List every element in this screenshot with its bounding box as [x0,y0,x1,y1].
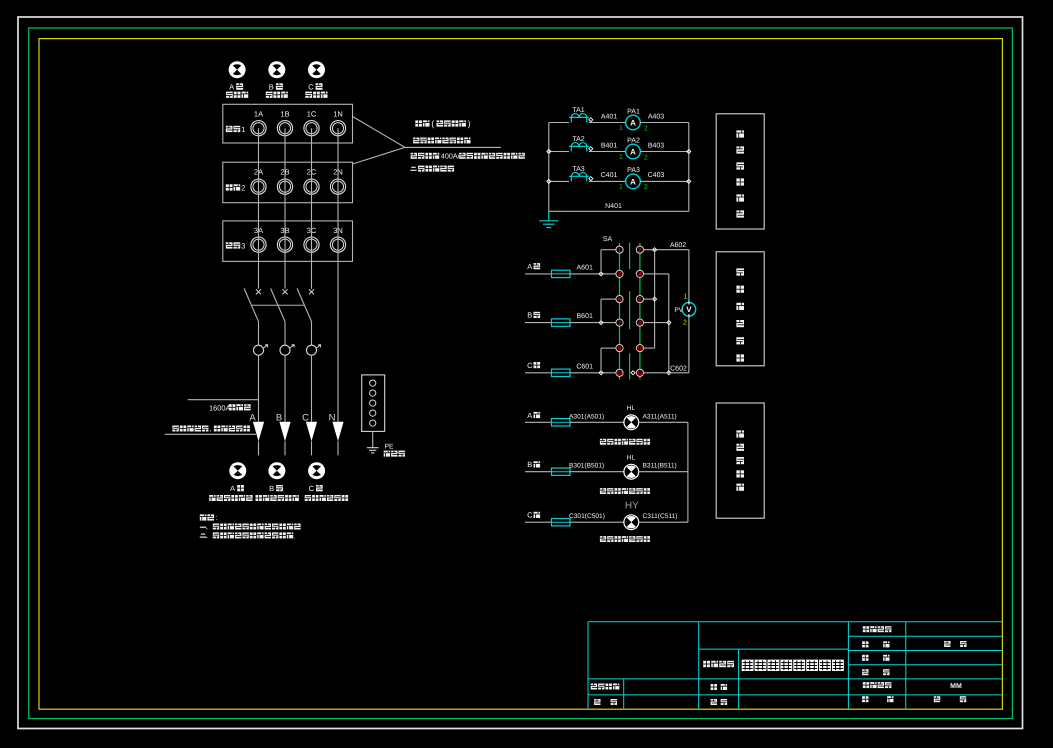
leader horizontal line [405,146,501,148]
wire A below breaker [258,322,260,346]
svg-text:5: 5 [618,296,622,303]
switch SA contact 1 [616,246,623,253]
wire row A (TA to ammeter) [589,122,626,124]
breaker pole A: blade [244,288,258,321]
switch SA pole line col2 (green) [639,243,641,380]
label 指示灯 [266,92,273,98]
box 指示灯回路 [716,403,764,518]
label B相电源指示灯 [600,488,606,494]
wire C below CT [311,355,313,422]
svg-text:1: 1 [619,184,623,191]
svg-text:(: ( [431,118,434,128]
ammeter PA1 [626,115,641,130]
wire B below breaker [284,322,286,346]
svg-text:C: C [308,82,314,91]
svg-text:TA2: TA2 [572,136,584,143]
wire fuse to lamp B [570,471,624,473]
wire B-phase feed (lamp circuit) [525,471,552,473]
junction diamond after TA2 [589,147,593,151]
switch SA shaft segment 3 (green) [629,353,631,379]
wire phase A vertical (sockets to breaker) [258,128,260,289]
svg-text:A401: A401 [601,113,617,120]
label 插座2 [226,184,233,190]
wire left bus (current circuit) [548,123,550,212]
label 指示灯回路 (vertical) [736,430,744,437]
title block value 电气 [944,641,950,647]
PE terminal 3 [370,400,376,406]
svg-text:12: 12 [636,370,643,377]
title block label 标注单位 [863,682,869,688]
switch SA contact 7 [616,319,623,326]
wire contact4 stub [644,273,669,275]
wire fuse to lamp C [570,521,624,523]
svg-text:B: B [269,484,274,493]
junction diamond C602 bottom [667,371,671,375]
fuse FU B (voltage circuit) [552,319,571,326]
current transformer ring phase A [254,345,264,355]
breaker pole C: blade [297,288,311,321]
label 电流测量回路 (vertical) [736,130,744,137]
svg-text:1: 1 [619,125,623,132]
wire row C (TA to ammeter) [589,180,626,182]
label A相电源指示灯 [600,439,606,445]
wire row B (ammeter to right bus) [640,151,689,153]
socket 3B [277,237,292,252]
wire PE to ground [372,431,374,447]
svg-text:C403: C403 [648,172,665,179]
wire contact10 stub [644,347,655,349]
junction diamond right bus row B [687,150,691,154]
wire lamp to bus A [639,421,688,423]
svg-text:A601: A601 [577,265,593,272]
note 接低压电缆，引至低压柜 [172,426,178,432]
svg-text:C602: C602 [670,365,687,372]
socket 3C [304,237,319,252]
output connector arrow A [253,422,264,442]
wire row A (ammeter to right bus) [640,122,689,124]
svg-text:HY: HY [625,500,639,511]
switch SA pole line col1 (green) [619,243,621,380]
fuse FU C (voltage circuit) [552,369,571,376]
switch SA shaft segment 2 (green) [629,291,631,329]
svg-text:A: A [527,262,532,271]
wire lamp to bus C [639,521,688,523]
indicator lamp C-phase (top) [308,61,325,78]
svg-text:A403: A403 [648,113,664,120]
signal lamp HL1 (A-phase) [624,415,639,430]
wire fuse to lamp A [570,421,624,423]
svg-text:B: B [527,460,532,469]
junction diamond right bus row C [687,179,691,183]
svg-text:B: B [269,82,274,91]
socket 2B [277,179,292,194]
socket 2C [304,179,319,194]
note line 1 一、输入采用快速接头输入方式 [200,526,206,528]
title block label 共页 [862,696,868,702]
wire contact6 stub [644,298,655,300]
wire neutral N vertical (sockets to output arrow) [337,128,339,422]
svg-text:C: C [527,361,533,370]
title block value 第页 [934,696,940,702]
voltmeter PV [682,303,696,317]
svg-text:C401: C401 [601,172,618,179]
socket 1C [304,121,319,136]
note 二回并联输出 [410,167,416,170]
junction diamond A602 row1 [653,248,657,252]
svg-text:11: 11 [616,370,623,377]
wire N401 bottom [549,210,689,212]
svg-text:TA1: TA1 [572,107,584,114]
wire right bus (lamp circuit) [687,422,689,522]
svg-text:HL: HL [627,455,636,462]
title 发电车快速接入箱 [742,660,754,671]
PE terminal 2 [370,390,376,396]
svg-text:A602: A602 [670,242,686,249]
label C相电源指示灯 [600,536,606,542]
svg-text:PV: PV [674,307,683,314]
wire vertical x654 (net A602) [654,250,656,348]
svg-text:8: 8 [638,320,642,327]
wire row C (left segment) [549,180,569,182]
output connector arrow N [332,422,343,442]
svg-text:N: N [329,412,336,423]
wire C-phase feed (lamp circuit) [525,521,552,523]
label 市电侧指示灯 [305,495,311,501]
indicator lamp B-phase (top) [268,61,285,78]
indicator lamp A-phase (mains side) [229,462,246,479]
wire C below breaker [311,322,313,346]
ammeter PA3 [626,174,641,189]
svg-text:1A: 1A [254,110,263,119]
svg-text:1: 1 [241,125,245,134]
svg-text:): ) [468,118,471,128]
junction diamond left bus row C [547,179,551,183]
title block label 图号 [862,655,868,661]
breaker pole B: contact cross [282,289,287,294]
junction diamond after TA1 [589,118,593,122]
wire C-phase feed (voltage circuit) [525,372,552,374]
svg-text:A: A [229,82,234,91]
socket 1A [251,121,266,136]
svg-text:2: 2 [644,154,648,161]
wire B-phase feed (voltage circuit) [525,322,552,324]
current transformer ring phase B [280,345,290,355]
title block label 制图 [711,684,717,690]
wire A below CT [258,355,260,422]
svg-text:A301(A501): A301(A501) [569,413,604,420]
label 市电侧指示灯 [256,495,262,501]
switch SA contact 10 [636,345,643,352]
svg-text:A: A [630,119,636,128]
svg-text:,: , [210,426,212,433]
title block label 项目经理 [591,684,597,690]
label 插座1 [226,126,233,132]
PE terminal 1 [370,380,376,386]
svg-text:V: V [686,305,692,314]
svg-text:3: 3 [618,271,622,278]
svg-text:.: . [294,533,296,540]
socket box 插座1 [223,104,353,143]
wire stub below arrow N [337,441,339,455]
wire contact12 to PV (net C602) [644,372,689,374]
title block label 设计阶段 [863,626,869,632]
svg-text:9: 9 [618,345,622,352]
label 市电侧指示灯 [209,495,215,501]
fuse FU A (lamp circuit) [552,419,571,426]
svg-text:PA2: PA2 [627,137,640,144]
svg-text:3: 3 [241,241,245,250]
wire phase B vertical (sockets to breaker) [284,128,286,289]
signal lamp HL2 (B-phase) [624,464,639,479]
label 插座3 [226,242,233,248]
wire A-phase feed (voltage circuit) [525,273,552,275]
svg-text:C: C [309,484,315,493]
ammeter PA2 [626,144,641,159]
wire fuse to switch A [570,273,616,275]
title block label 图幅 [862,669,868,675]
socket 1B [277,121,292,136]
note 说明: [200,514,207,520]
svg-text:B403: B403 [648,142,664,149]
breaker linkage bar [252,304,305,306]
svg-text:、: 、 [205,525,211,531]
switch SA contact 4 [636,270,643,277]
svg-text:4: 4 [638,271,642,278]
indicator lamp B-phase (mains side) [268,462,285,479]
title block label 项目名称 [703,661,710,667]
svg-text:PE: PE [384,444,394,451]
wire contact8 stub [644,322,669,324]
current transformer TA1 [569,114,589,123]
wire branch up B [600,299,602,323]
svg-text:C311(C511): C311(C511) [643,513,678,520]
svg-text:A311(A511): A311(A511) [643,413,677,420]
junction diamond after TA3 [589,177,593,181]
svg-text:A: A [230,484,235,493]
svg-text:C301(C501): C301(C501) [569,513,605,520]
wire right bus (current circuit) [688,123,690,212]
svg-text:1: 1 [684,293,688,300]
svg-text:C: C [527,511,533,520]
socket box 插座2 [223,162,353,203]
svg-text:PA3: PA3 [627,167,640,174]
svg-text::: : [216,513,218,522]
svg-text:SA: SA [603,236,613,243]
title block label 审核 [594,699,600,705]
wire row B (left segment) [549,151,569,153]
switch SA contact 8 [636,319,643,326]
wire stub below arrow C [311,441,313,455]
svg-text:400A/: 400A/ [441,151,460,160]
socket 3N [330,237,345,252]
indicator lamp A-phase (top) [229,61,246,78]
socket box 插座3 [223,221,353,262]
socket 1N [330,121,345,136]
indicator lamp C-phase (mains side) [308,462,325,479]
junction diamond A601 [599,272,603,276]
current transformer ring phase C [307,345,317,355]
fuse FU A (voltage circuit) [552,270,571,277]
svg-text:1600A: 1600A [209,404,230,413]
switch SA contact 2 [636,246,643,253]
svg-text:C: C [302,412,309,423]
breaker pole C: contact cross [309,289,314,294]
svg-text:B401: B401 [601,142,617,149]
output connector arrow C [306,422,317,442]
wire B below CT [284,355,286,422]
label 电压测量回路 (vertical) [736,268,744,275]
socket 2N [330,179,345,194]
svg-text:2: 2 [683,319,687,326]
note 插座采用400A/无火花型单芯连接器 [411,153,417,159]
wire contact2 to PV (net A602) [644,249,689,251]
svg-text:1N: 1N [333,110,343,119]
fuse FU B (lamp circuit) [552,468,571,475]
switch SA contact 6 [636,296,643,303]
switch SA contact 3 [616,270,623,277]
wire fuse to switch C [570,372,616,374]
svg-text:TA3: TA3 [572,166,584,173]
junction diamond before contact12 [631,371,635,375]
PE terminal block [362,375,385,432]
signal lamp HY3 (C-phase) [624,515,639,530]
wire row C (ammeter to right bus) [640,180,689,182]
svg-text:A: A [249,412,256,423]
svg-text:B301(B501): B301(B501) [569,463,604,470]
wire A-phase feed (lamp circuit) [525,421,552,423]
junction diamond C601 [599,371,603,375]
switch SA contact 11 [616,369,623,376]
leader line from 插座2 to note [353,147,406,164]
ground symbol (current circuit) [548,211,550,221]
svg-text:2: 2 [241,183,245,192]
svg-text:1B: 1B [280,110,289,119]
junction diamond left bus row B [547,150,551,154]
wire lamp to bus B [639,471,688,473]
svg-text:、: 、 [205,534,211,540]
title block outline [588,622,1002,709]
svg-text:PA1: PA1 [627,108,640,115]
breaker pole B: blade [271,288,285,321]
wire phase C vertical (sockets to breaker) [311,128,313,289]
svg-text:B: B [276,412,282,423]
svg-text:N401: N401 [605,203,622,210]
leader line from 插座1 to note [353,117,406,148]
svg-text:MM: MM [950,683,962,690]
svg-text:1C: 1C [307,110,317,119]
label 指示灯 [305,92,312,98]
svg-text:A: A [527,411,532,420]
current transformer TA2 [569,143,589,152]
label 接地排 [384,451,390,457]
output connector arrow B [279,422,290,442]
wire fuse to switch B [570,322,616,324]
box 电流测量回路 [716,114,764,229]
label 指示灯 [226,92,233,98]
svg-text:1: 1 [619,154,623,161]
box 电压测量回路 [716,252,764,366]
current transformer TA3 [569,172,589,181]
switch SA contact 12 [636,369,643,376]
svg-text:HL: HL [627,405,636,412]
svg-text:2: 2 [644,184,648,191]
note 输入（进线电源） [415,120,422,126]
PE terminal 4 [370,410,376,416]
junction diamond B601 [599,321,603,325]
note line 2 二、输出采用橡套软电缆输出 [200,534,206,537]
svg-text:B: B [527,311,532,320]
wire branch up C [600,348,602,373]
svg-text:2: 2 [644,125,648,132]
svg-text:7: 7 [618,320,622,327]
svg-text:B311(B511): B311(B511) [643,463,677,470]
switch SA contact 5 [616,296,623,303]
svg-text:A: A [630,177,636,186]
note 发电车快速接入点 [413,138,419,144]
PE terminal 5 [370,420,376,426]
title block label 校对 [711,699,717,705]
switch SA contact 9 [616,345,623,352]
socket 2A [251,179,266,194]
junction diamond A602 row3 [653,297,657,301]
svg-text:10: 10 [636,345,643,352]
svg-text:6: 6 [638,296,642,303]
leader line 1600A [188,399,259,401]
svg-text:1: 1 [618,247,622,254]
svg-text:B601: B601 [577,313,593,320]
wire stub below arrow A [258,441,260,455]
svg-text:2: 2 [638,247,642,254]
leader line low-voltage cable [165,433,256,435]
junction diamond C602 row4 [667,321,671,325]
socket 3A [251,237,266,252]
wire row A (left segment) [549,122,569,124]
switch SA shaft segment 1 (green) [629,243,631,269]
title block label 专业 [862,641,868,647]
ground symbol PE [367,447,379,449]
wire branch up A [600,250,602,274]
breaker pole A: contact cross [256,289,261,294]
svg-text:A: A [630,148,636,157]
wire vertical x668 (net C602) [668,274,670,373]
wire stub below arrow B [284,441,286,455]
fuse FU C (lamp circuit) [552,519,571,526]
wire row B (TA to ammeter) [589,151,626,153]
svg-text:C601: C601 [576,363,593,370]
